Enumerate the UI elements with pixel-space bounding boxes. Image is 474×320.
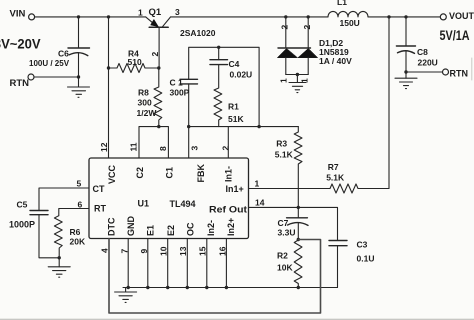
wire diode cathode bar (278, 47, 311, 49)
ground diodes (289, 75, 306, 93)
svg-text:C6: C6 (58, 49, 69, 59)
svg-text:1: 1 (300, 78, 310, 83)
node VCC branch junction (107, 15, 110, 18)
wire C6 upper lead (78, 17, 80, 48)
wire RTN right (406, 71, 442, 73)
svg-text:7: 7 (119, 249, 129, 254)
svg-text:1A / 40V: 1A / 40V (319, 56, 352, 66)
svg-text:5V/1A: 5V/1A (440, 28, 470, 43)
svg-text:10K: 10K (277, 262, 293, 272)
svg-text:C7: C7 (278, 218, 289, 228)
wire scan edge right (471, 58, 473, 80)
svg-text:R8: R8 (138, 88, 149, 98)
svg-text:C8: C8 (417, 47, 428, 57)
svg-text:C1: C1 (164, 167, 174, 179)
capacitor C4 0.02U (210, 60, 228, 65)
wire R3 to C7 (297, 207, 299, 217)
svg-text:VIN: VIN (10, 8, 26, 19)
svg-text:300P: 300P (170, 87, 190, 97)
node pin15 gnd junction (205, 286, 208, 289)
wire pin 16 drop (225, 239, 227, 288)
svg-text:11: 11 (129, 142, 139, 151)
svg-text:8: 8 (158, 146, 168, 151)
node R4 right / Q1 base junction (157, 66, 160, 69)
ground timing (48, 258, 70, 277)
svg-text:3: 3 (189, 146, 199, 151)
svg-text:2SA1020: 2SA1020 (180, 28, 216, 38)
resistor R8 300 (154, 68, 162, 127)
capacitor C8 220U (396, 46, 415, 53)
svg-text:VCC: VCC (107, 164, 117, 184)
node pin10 gnd junction (166, 286, 169, 289)
svg-text:R7: R7 (328, 162, 339, 172)
wire diode anode join (286, 74, 308, 76)
resistor R1 51K (214, 65, 222, 127)
wire pin 2 drop (227, 127, 229, 158)
resistor R6 20K (54, 216, 62, 258)
resistor R7 5.1K (330, 184, 389, 193)
node pin9 gnd junction (146, 286, 149, 289)
svg-text:10: 10 (159, 246, 169, 256)
wire pin 15 drop (206, 239, 208, 288)
svg-text:5: 5 (77, 179, 82, 189)
wire VOUT sense drop (388, 17, 390, 189)
svg-text:GND: GND (126, 216, 136, 237)
svg-text:1: 1 (278, 78, 288, 83)
wire ground rail (123, 287, 338, 289)
node In1- tee junction (257, 125, 260, 128)
node pin16 gnd junction (225, 286, 228, 289)
capacitor C6 (68, 48, 90, 56)
svg-text:2: 2 (302, 25, 312, 30)
svg-text:In2+: In2+ (226, 218, 236, 236)
wire C3 bottom to ground rail (337, 246, 339, 288)
svg-text:220U: 220U (418, 57, 438, 67)
wire L1 to VOUT (368, 16, 440, 18)
svg-text:VOUT: VOUT (449, 11, 474, 21)
ground logic (115, 288, 137, 303)
svg-text:Q1: Q1 (149, 7, 162, 18)
svg-text:In1-: In1- (224, 166, 234, 182)
wire C7 to R2 (297, 223, 299, 241)
node C6 top junction (77, 15, 80, 18)
diode D2 1N5819 (298, 17, 318, 75)
wire feedback top net (189, 47, 259, 126)
terminal VOUT (440, 14, 446, 20)
svg-text:U1: U1 (138, 199, 150, 209)
svg-text:L1: L1 (337, 0, 347, 7)
op-amp U1 TL494 box (89, 158, 249, 239)
wire C1-C2 pins tee (139, 127, 168, 158)
svg-text:R2: R2 (277, 250, 288, 260)
node R6 C5 ground junction (58, 256, 61, 259)
svg-text:1000P: 1000P (9, 220, 35, 230)
svg-text:8V~20V: 8V~20V (0, 37, 41, 52)
svg-text:14: 14 (255, 197, 265, 207)
svg-text:4: 4 (100, 248, 110, 253)
svg-text:DTC: DTC (107, 217, 117, 236)
svg-text:RT: RT (94, 204, 106, 214)
svg-text:1: 1 (138, 7, 143, 17)
wire C6 lower lead (78, 53, 80, 77)
svg-text:3: 3 (175, 7, 180, 17)
wire C1 bottom to pin 3 (188, 84, 190, 158)
wire pin 13 drop (186, 239, 188, 288)
svg-text:9: 9 (139, 249, 149, 254)
node pin7 gnd junction (127, 286, 130, 289)
node R4 left junction (107, 66, 110, 69)
wire pin 14 Ref Out net (249, 207, 338, 240)
svg-text:20K: 20K (70, 237, 86, 247)
node Ref divider junction (297, 206, 300, 209)
capacitor C5 1000P (30, 211, 48, 215)
svg-text:15: 15 (198, 246, 208, 256)
svg-text:5.1K: 5.1K (326, 172, 345, 182)
wire Q1 collector to L1 (171, 16, 328, 18)
resistor R2 10K (294, 240, 302, 288)
svg-text:51K: 51K (228, 114, 244, 124)
transistor Q1 2SA1020 PNP (146, 17, 171, 68)
wire C8 lower lead (405, 51, 407, 72)
node C8 junction (404, 15, 407, 18)
node D2 rail junction (307, 15, 310, 18)
wire pin 7 drop (127, 239, 129, 288)
svg-text:TL494: TL494 (170, 199, 196, 209)
node R2 ground junction (297, 286, 300, 289)
svg-text:R6: R6 (70, 227, 81, 237)
wire scan edge bottom (0, 318, 474, 320)
svg-text:C4: C4 (229, 59, 240, 69)
svg-text:2: 2 (150, 52, 160, 57)
svg-text:R3: R3 (276, 138, 287, 148)
wire pin 9 drop (147, 239, 149, 288)
ground output (395, 72, 417, 89)
wire In1- net (189, 126, 299, 128)
node feedback sense junction (387, 15, 390, 18)
svg-text:E1: E1 (145, 225, 155, 236)
svg-text:100U / 25V: 100U / 25V (29, 59, 70, 68)
wire pin 10 drop (167, 239, 169, 288)
node D1 rail junction (284, 15, 287, 18)
svg-text:6: 6 (78, 200, 83, 210)
svg-text:3.3U: 3.3U (278, 228, 296, 238)
capacitor C1 300P (180, 79, 198, 84)
svg-text:Ref Out: Ref Out (209, 205, 247, 215)
svg-text:C2: C2 (135, 167, 145, 179)
node RTN ground junction (77, 75, 80, 78)
svg-text:510: 510 (128, 57, 142, 67)
wire C4 top lead (218, 47, 220, 59)
node R8 bottom junction (157, 125, 160, 128)
terminal VIN (29, 14, 35, 20)
svg-text:FBK: FBK (196, 164, 206, 183)
svg-text:C 1: C 1 (170, 78, 184, 88)
node C4 top junction (217, 46, 220, 49)
wire C8 top lead (405, 17, 407, 46)
svg-text:1/2W: 1/2W (137, 108, 158, 118)
ground input (68, 77, 90, 97)
svg-text:150U: 150U (340, 18, 360, 28)
wire VIN rail to Q1 emitter (35, 16, 146, 18)
node RTN right junction (404, 70, 407, 73)
wire pin 5 CT (39, 188, 89, 211)
wire pin 1 In1+ net with R7 (249, 188, 331, 190)
svg-text:RTN: RTN (10, 78, 30, 89)
resistor R4 510 (109, 64, 159, 73)
svg-text:In2-: In2- (206, 220, 216, 236)
svg-text:2: 2 (221, 146, 231, 151)
resistor R3 5.1K (294, 127, 302, 208)
node diode anode junction (296, 73, 299, 76)
wire pin 4 DTC loop (109, 239, 321, 314)
svg-text:E2: E2 (166, 225, 176, 236)
svg-text:In1+: In1+ (226, 184, 244, 194)
node pin13 gnd junction (186, 286, 189, 289)
svg-text:12: 12 (99, 142, 109, 152)
svg-text:RTN: RTN (450, 68, 469, 78)
svg-text:16: 16 (217, 246, 227, 256)
svg-text:1: 1 (255, 179, 260, 189)
capacitor C7 3.3U (287, 218, 308, 226)
node FBK junction (187, 125, 190, 128)
svg-text:C5: C5 (17, 200, 28, 210)
svg-text:5.1K: 5.1K (275, 149, 294, 159)
wire C5 bottom lead (39, 215, 59, 258)
svg-text:300: 300 (138, 97, 152, 107)
diode D1 1N5819 (277, 17, 297, 75)
svg-text:R1: R1 (228, 101, 239, 111)
terminal RTN right (443, 69, 449, 75)
inductor L1 150U (328, 11, 368, 17)
wire VCC vertical to pin 12 (108, 17, 110, 158)
wire pin 6 RT (59, 209, 89, 216)
svg-text:OC: OC (185, 222, 195, 236)
svg-text:CT: CT (93, 184, 105, 194)
svg-text:2: 2 (280, 25, 290, 30)
terminal RTN left (28, 74, 34, 80)
capacitor C3 0.1U (329, 241, 347, 246)
wire RTN to ground node (34, 76, 78, 78)
svg-text:0.02U: 0.02U (230, 69, 253, 79)
svg-text:0.1U: 0.1U (357, 253, 375, 263)
svg-text:C3: C3 (357, 239, 368, 249)
node soft-start junction (297, 238, 300, 241)
svg-text:13: 13 (178, 246, 188, 256)
